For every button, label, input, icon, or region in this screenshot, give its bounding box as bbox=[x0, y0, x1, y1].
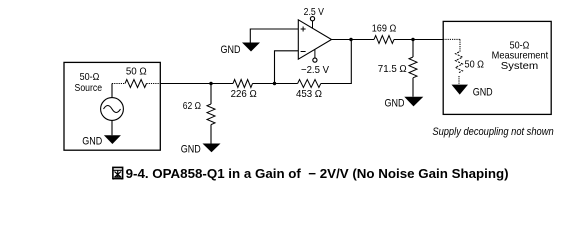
svg-text:50 Ω: 50 Ω bbox=[465, 59, 485, 71]
svg-text:Supply decoupling not shown: Supply decoupling not shown bbox=[432, 126, 553, 138]
svg-text:71.5 Ω: 71.5 Ω bbox=[378, 63, 407, 75]
svg-text:GND: GND bbox=[385, 98, 405, 110]
svg-text:GND: GND bbox=[181, 143, 201, 155]
svg-text:−2.5 V: −2.5 V bbox=[301, 64, 329, 76]
svg-text:GND: GND bbox=[82, 135, 102, 147]
svg-text:9-4. OPA858-Q1 in a Gain of −: 9-4. OPA858-Q1 in a Gain of − 2V/V (No N… bbox=[126, 166, 509, 181]
svg-text:System: System bbox=[501, 60, 539, 72]
svg-text:GND: GND bbox=[221, 44, 241, 56]
svg-text:453 Ω: 453 Ω bbox=[296, 88, 322, 100]
svg-text:GND: GND bbox=[473, 87, 493, 99]
svg-text:50 Ω: 50 Ω bbox=[126, 66, 147, 78]
svg-text:169 Ω: 169 Ω bbox=[372, 23, 397, 35]
svg-text:226 Ω: 226 Ω bbox=[231, 88, 257, 100]
svg-text:Source: Source bbox=[75, 82, 103, 94]
svg-text:2.5 V: 2.5 V bbox=[304, 6, 324, 18]
svg-text:62 Ω: 62 Ω bbox=[183, 100, 201, 112]
